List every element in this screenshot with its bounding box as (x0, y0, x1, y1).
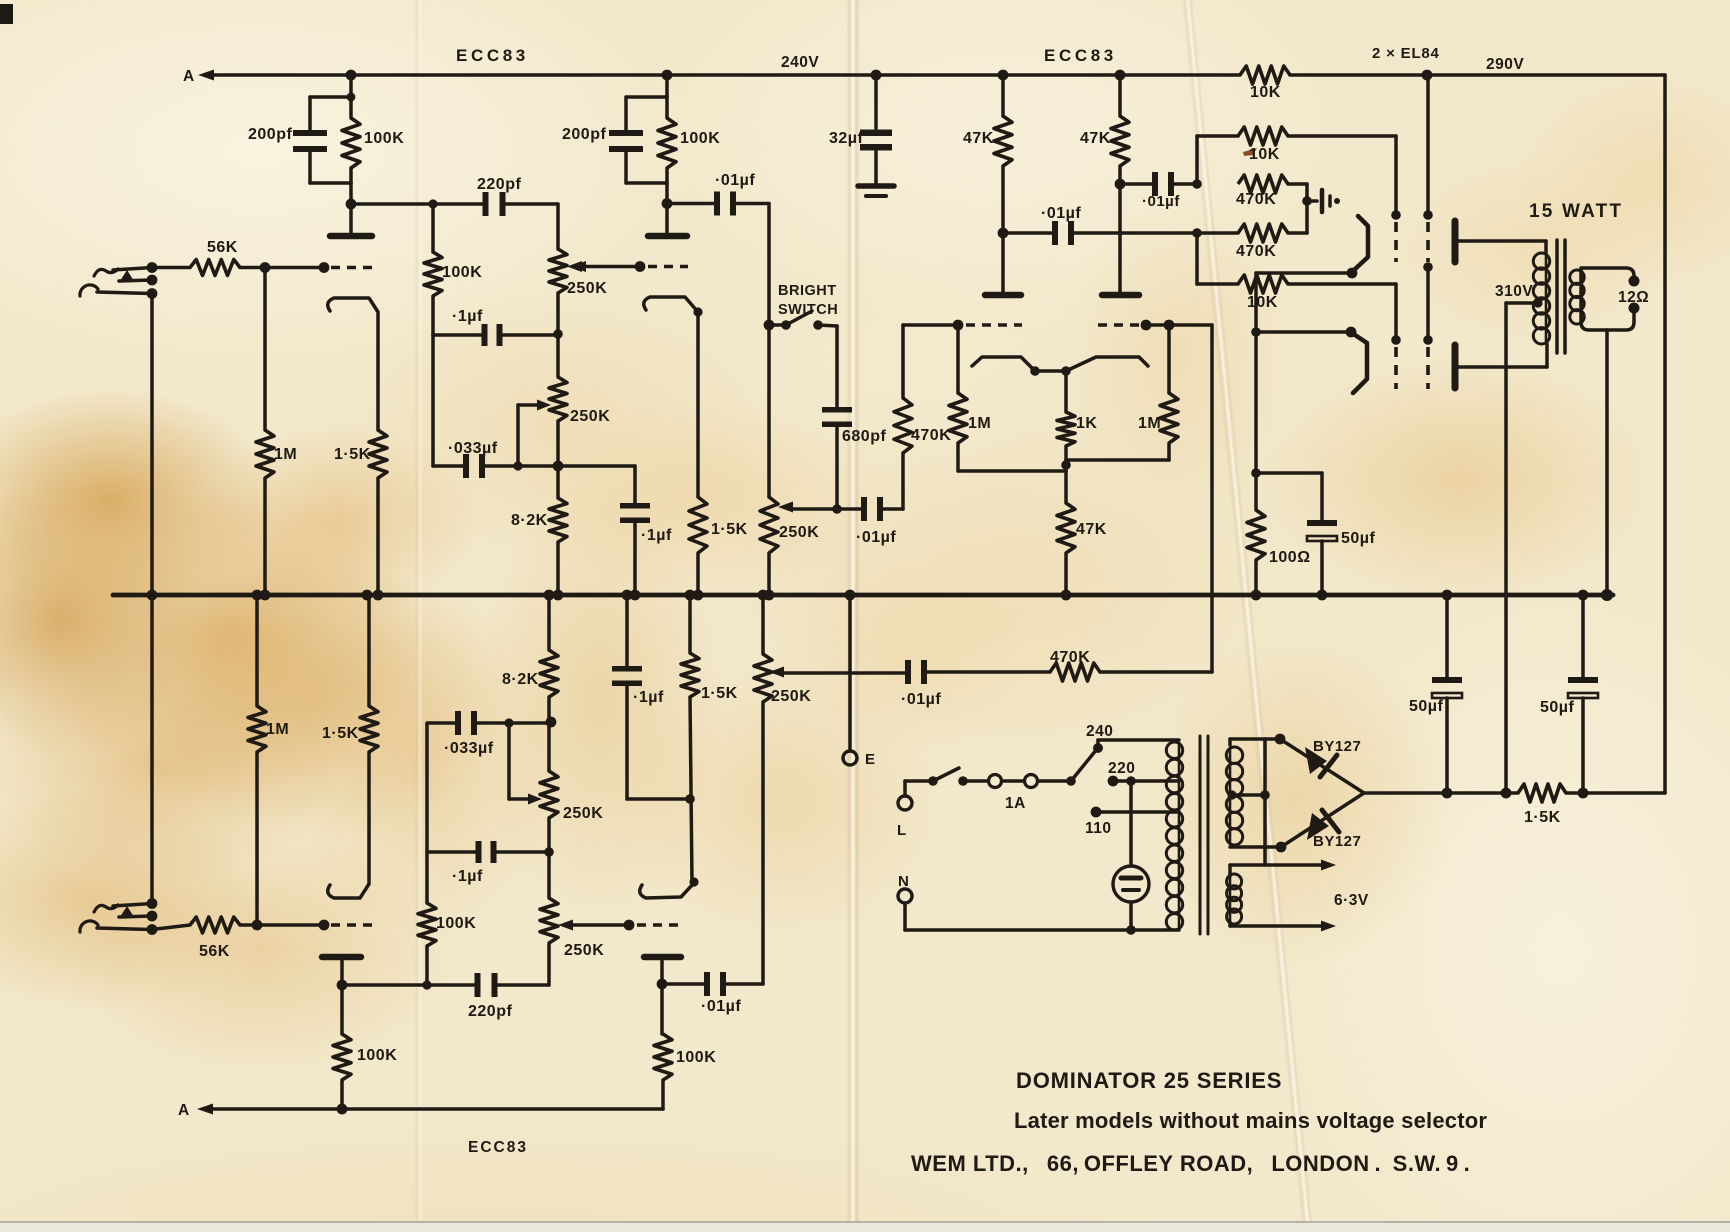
capacitor .033uf (ch2) (455, 711, 477, 735)
resistor 470K (PI grid) (894, 325, 912, 453)
svg-text:·01µf: ·01µf (701, 998, 741, 1015)
svg-text:ECC83: ECC83 (468, 1139, 528, 1156)
fuse 1A (989, 775, 1072, 788)
resistor 1.5K (V1b cathode) (689, 497, 707, 595)
transformer OT primary (1533, 253, 1549, 344)
transformer PT HT secondary (1226, 747, 1242, 845)
capacitor 220pf (ch2) (475, 973, 498, 997)
junction HT+ 50uf-3 (1578, 788, 1589, 799)
wire 100K tone ch1 down (431, 335, 435, 466)
label 200pf V1b (562, 126, 606, 143)
svg-text:10K: 10K (1250, 84, 1281, 101)
title WEM LTD address (911, 1151, 1470, 1176)
node A (top feedback rail, arrow left) (183, 68, 1240, 85)
svg-text:6·3V: 6·3V (1334, 892, 1369, 909)
tube EL84-1 cathode (1347, 216, 1368, 278)
jack input 2 sleeve hook (80, 921, 152, 932)
resistor 100K (tone ch1) (424, 204, 442, 335)
junction hum preset (1302, 196, 1312, 206)
jack input 2 tip squiggle (94, 905, 118, 912)
junction 100K tone2 bottom (422, 980, 431, 989)
potentiometer 250K bass ch2 (540, 723, 558, 852)
capacitor 32uf (860, 75, 892, 183)
label .01uf PI left out (1041, 205, 1081, 222)
tube PI cathode wings (972, 357, 1148, 371)
bus 0V horizontal (113, 593, 1613, 598)
label 220pf ch1 (477, 176, 521, 193)
junction speaker terminal top (1629, 276, 1640, 287)
transformer OT secondary (1570, 270, 1584, 324)
wire EL84 screens (1423, 75, 1433, 389)
capacitor .01uf (PI right out) (1120, 172, 1197, 196)
resistor 47K (PI bias) (1057, 471, 1075, 595)
label 1.5K V2a (322, 725, 359, 742)
svg-text:470K: 470K (1050, 649, 1090, 666)
svg-text:240: 240 (1086, 723, 1113, 740)
terminal 110 tap (1091, 807, 1179, 818)
scanner corner mark (0, 4, 13, 24)
svg-text:1M: 1M (274, 446, 297, 463)
label 56K input1 (207, 239, 238, 256)
svg-text:50µf: 50µf (1409, 698, 1444, 715)
tube EL84-2 grid (1391, 335, 1401, 389)
label 32uf (829, 130, 864, 147)
wire 220pf ch2 right (497, 983, 549, 987)
wire cathode node (1256, 471, 1322, 475)
label 1A (1005, 795, 1026, 812)
svg-text:Later models without mains vol: Later models without mains voltage selec… (1014, 1108, 1487, 1133)
svg-text:100K: 100K (676, 1049, 716, 1066)
foxing speck (1243, 148, 1257, 156)
jack input 2 tip contact (113, 904, 152, 918)
junction V1b grid (635, 261, 646, 272)
svg-text:56K: 56K (199, 943, 230, 960)
capacitor 220pf (ch1 treble) (483, 192, 506, 216)
svg-text:240V: 240V (781, 54, 819, 71)
svg-text:200pf: 200pf (562, 126, 606, 143)
triode V1b cathode (644, 297, 703, 497)
label 2 x EL84 (1372, 45, 1440, 62)
resistor 47K (PI left) (994, 75, 1012, 292)
triode V1a cathode (328, 298, 378, 430)
junction bus x1583 (1578, 590, 1589, 601)
wire jack2 to bus (150, 595, 154, 904)
diode BY127 upper (1280, 739, 1364, 793)
potentiometer 250K volume ch1 (760, 497, 778, 595)
junction 32uf rail (871, 70, 882, 81)
svg-text:·1µf: ·1µf (452, 868, 483, 885)
junction bus x367 (362, 590, 373, 601)
label 100R (1269, 549, 1311, 566)
svg-text:200pf: 200pf (248, 126, 292, 143)
junction 56K / 1M node (260, 262, 271, 273)
junction screens rail (1422, 70, 1433, 81)
svg-text:12Ω: 12Ω (1618, 289, 1649, 306)
speaker loop (1581, 268, 1634, 330)
svg-text:1M: 1M (968, 415, 991, 432)
junction bright tap (764, 320, 775, 331)
junction jack2 tip (147, 898, 158, 909)
svg-text:BY127: BY127 (1313, 738, 1361, 755)
junction PI cathode left (1030, 366, 1040, 376)
triode V2b anode bar (644, 954, 681, 961)
label BRIGHT SWITCH (778, 283, 838, 318)
wire 220pf ch2 left (342, 983, 474, 987)
capacitor .1uf (ch1 tone) (482, 324, 503, 346)
svg-text:100K: 100K (364, 130, 404, 147)
label 1.5K V2b (701, 685, 738, 702)
wire V2b grid dashes (637, 923, 684, 926)
svg-text:680pf: 680pf (842, 428, 886, 445)
resistor 8.2K (ch1) (549, 466, 567, 595)
tube EL84-1 anode bar (1452, 221, 1459, 262)
junction bus x1322 (1317, 590, 1328, 601)
svg-text:220: 220 (1108, 760, 1135, 777)
junction bus x549 (544, 590, 555, 601)
wire EL84-2 anode to OT (1456, 344, 1547, 367)
capacitor 200pf (V1b) (609, 130, 643, 152)
resistor 100K (tone ch2) (418, 724, 436, 985)
svg-text:250K: 250K (779, 524, 819, 541)
junction cathode node (1251, 468, 1261, 478)
junction bus x558 (553, 590, 564, 601)
tube PI anode bar left (985, 292, 1021, 299)
wire EL84-2 cathode (1256, 330, 1351, 334)
junction 680pf wiper (832, 504, 842, 514)
transformer OT core (1557, 240, 1565, 353)
jack input 1 tip squiggle (94, 269, 118, 276)
jack input 1 sleeve hook (80, 285, 152, 296)
junction diode2 anode (1276, 842, 1287, 853)
svg-text:E: E (865, 751, 876, 768)
label 100K V2b (676, 1049, 716, 1066)
junction bus x627 (622, 590, 633, 601)
wire L to switch (905, 781, 933, 796)
transformer PT core (1200, 736, 1208, 934)
svg-text:100K: 100K (442, 264, 482, 281)
label 220 (1108, 760, 1135, 777)
svg-text:·01µf: ·01µf (901, 691, 941, 708)
junction NFB 1M tap (1164, 320, 1175, 331)
label .01uf PI right out (1142, 193, 1180, 210)
svg-text:250K: 250K (570, 408, 610, 425)
svg-text:SWITCH: SWITCH (778, 302, 838, 318)
junction 56K2 / 1M node (252, 920, 263, 931)
junction 47K-2 rail (1115, 70, 1126, 81)
label 50uf reservoir (1409, 698, 1444, 715)
wire tone ch2 bottom (427, 721, 549, 725)
svg-text:·01µf: ·01µf (1142, 193, 1180, 210)
label .01uf PI input (856, 529, 896, 546)
junction neon top (1126, 776, 1136, 786)
label 1M input1 (274, 446, 297, 463)
capacitor 50uf (smoothing) (1568, 595, 1598, 793)
junction bus x1447 (1442, 590, 1453, 601)
resistor 56K (input 2) (152, 917, 324, 933)
wire PI left grid (903, 320, 963, 331)
wire treble2 wiper (558, 920, 573, 931)
junction bus x1066 (1061, 590, 1072, 601)
potentiometer 250K treble ch2 (540, 852, 558, 985)
label 220pf ch2 (468, 1003, 512, 1020)
svg-text:·01µf: ·01µf (715, 172, 755, 189)
transformer PT heater winding (1227, 874, 1242, 924)
svg-text:470K: 470K (911, 427, 951, 444)
resistor 10K (HT dropper, top rail) (1240, 66, 1665, 84)
capacitor .1uf (ch2 tone) (476, 841, 497, 863)
capacitor .033uf (ch1) (463, 454, 485, 478)
label ECC83 first stage (456, 46, 529, 65)
wire ladder seg A (1195, 136, 1199, 184)
wire coupling cap to volume (736, 204, 769, 498)
svg-text:1A: 1A (1005, 795, 1026, 812)
label 1.5K PSU (1524, 809, 1561, 826)
junction 47K-1 rail (998, 70, 1009, 81)
potentiometer 250K volume ch2 (754, 595, 772, 984)
paper fold crease left faint (414, 0, 423, 1232)
label 100K V2a (357, 1047, 397, 1064)
junction PI left cap node (998, 228, 1009, 239)
svg-text:1·5K: 1·5K (701, 685, 738, 702)
junction cathode join (1251, 327, 1261, 337)
capacitor .1uf (ch1 to bus) (620, 466, 650, 595)
wire HT+ line (1364, 791, 1665, 795)
resistor 47K (PI right) (1111, 75, 1129, 292)
potentiometer 250K bass ch1 (549, 333, 567, 466)
diode BY127 lower (1281, 793, 1364, 847)
svg-text:2 × EL84: 2 × EL84 (1372, 45, 1440, 62)
svg-text:110: 110 (1085, 820, 1112, 837)
svg-text:470K: 470K (1236, 191, 1276, 208)
svg-text:L: L (897, 822, 907, 839)
wire PI input (883, 453, 903, 509)
wire PI right grid to NFB (1146, 323, 1212, 327)
label 470K grid2 (1236, 243, 1276, 260)
junction V2a grid (319, 920, 330, 931)
switch BRIGHT (769, 311, 837, 407)
tube EL84-2 anode bar (1452, 345, 1459, 388)
junction bus end (1601, 589, 1613, 601)
node A bottom (arrow) (178, 1102, 663, 1119)
junction jack1 ring (147, 275, 158, 286)
wire V1a anode to 220pf (351, 202, 484, 206)
capacitor 680pf (822, 407, 852, 509)
label 680pf (842, 428, 886, 445)
capacitor 50uf (reservoir) (1432, 595, 1462, 793)
tube EL84-1 grid (1391, 210, 1401, 262)
label .1uf ch1 tone (452, 308, 483, 325)
junction PI cathode right (1061, 366, 1071, 376)
title DOMINATOR 25 SERIES (1016, 1068, 1282, 1093)
capacitor .01uf (PI left out) (1003, 221, 1238, 245)
wire volume ch1 wiper (778, 502, 861, 513)
junction bus x690 (685, 590, 696, 601)
capacitor 50uf (cathode) (1307, 473, 1337, 595)
label .1uf ch2 tone (452, 868, 483, 885)
label 240 (1086, 723, 1113, 740)
svg-text:·033µf: ·033µf (448, 440, 498, 457)
label 1.5K V1a (334, 446, 371, 463)
capacitor .01uf (NFB) (905, 660, 927, 684)
resistor 1.5K (V2a cathode) (360, 595, 378, 752)
wire OT centre tap 310V (1506, 298, 1543, 793)
label 250K volume ch2 (771, 688, 811, 705)
wire CT riser (1263, 739, 1267, 865)
svg-text:1M: 1M (1138, 415, 1161, 432)
label 50uf cathode (1341, 530, 1376, 547)
svg-text:BY127: BY127 (1313, 833, 1361, 850)
label 250K treble ch2 (564, 942, 604, 959)
bottom scanner edge (0, 1221, 1730, 1232)
junction tone ch1 node (553, 461, 564, 472)
label .01uf V2b (701, 998, 741, 1015)
junction diode1 anode (1275, 734, 1286, 745)
junction HT+ 50uf-2 (1442, 788, 1453, 799)
label 1K PI tail (1076, 415, 1097, 432)
junction bus x265 (260, 590, 271, 601)
resistor 10K (EL84 grid2 stopper) (1197, 275, 1396, 340)
label 100K V1a (364, 130, 404, 147)
svg-text:100K: 100K (680, 130, 720, 147)
label 56K input2 (199, 943, 230, 960)
svg-text:·033µf: ·033µf (444, 740, 494, 757)
label 8.2K ch2 (502, 671, 539, 688)
wire PI bias node (958, 460, 1169, 471)
junction PI right grid (1141, 320, 1152, 331)
capacitor .1uf (ch2 to bus) (612, 595, 695, 804)
svg-text:47K: 47K (1076, 521, 1107, 538)
svg-text:100K: 100K (436, 915, 476, 932)
resistor 56K (input 1) (152, 260, 324, 276)
label 100K tone ch2 (436, 915, 476, 932)
potentiometer 250K treble ch1 (549, 249, 567, 333)
capacitor .01uf (V1b coupling) (714, 192, 736, 216)
wire 240 tap (1098, 740, 1179, 748)
svg-text:15 WATT: 15 WATT (1529, 201, 1623, 222)
label 290V (1486, 56, 1524, 73)
wire right edge (290V rail down to rectifier) (1663, 75, 1667, 793)
tube EL84-2 cathode (1346, 327, 1367, 393)
label 12 ohm (1618, 289, 1649, 306)
svg-text:32µf: 32µf (829, 130, 864, 147)
paper fold crease right (diagonal) (1181, 0, 1313, 1226)
triode V1b grid wire (571, 261, 640, 272)
junction bus x850 (845, 590, 856, 601)
resistor 1.5K (PSU) (1518, 784, 1566, 802)
label 10K grid2 (1247, 294, 1278, 311)
wire V1b grid dashes (648, 265, 688, 268)
wire V1a grid dashes (331, 266, 372, 269)
label 250K treble ch1 (567, 280, 607, 297)
wire HT top to diode (1230, 739, 1280, 745)
label BY127 upper (1313, 738, 1361, 755)
label 15 WATT (1529, 201, 1623, 222)
label 10K grid1 (1249, 146, 1280, 163)
svg-text:470K: 470K (1236, 243, 1276, 260)
resistor 1M (input 2 grid) (248, 595, 266, 925)
svg-text:·01µf: ·01µf (856, 529, 896, 546)
junction bus x1256 (1251, 590, 1262, 601)
junction ladder row4 (1192, 228, 1202, 238)
terminal E (843, 595, 876, 768)
label .1uf ch2 bus (633, 689, 664, 706)
resistor 1K (PI tail) (1057, 371, 1075, 460)
lamp neon (1113, 781, 1149, 930)
junction jack2 ring (147, 911, 158, 922)
label 100K tone ch1 (442, 264, 482, 281)
label BY127 lower (1313, 833, 1361, 850)
junction bass2 wiper bottom (504, 718, 513, 727)
wire 220pf to treble pot (505, 204, 558, 249)
svg-text:·1µf: ·1µf (452, 308, 483, 325)
wire jack1 sleeve to bus (150, 294, 154, 596)
label .033uf ch1 (448, 440, 498, 457)
junction jack1 sleeve (147, 288, 158, 299)
label 470K PI grid (911, 427, 951, 444)
svg-text:47K: 47K (1080, 130, 1111, 147)
junction V1b anode node (662, 198, 673, 209)
label 470K NFB (1050, 649, 1090, 666)
svg-text:·1µf: ·1µf (641, 527, 672, 544)
resistor 1M (PI right) (1160, 325, 1178, 460)
junction V1a anode rail (346, 70, 357, 81)
wire V2b anode (657, 957, 668, 1034)
svg-text:100K: 100K (357, 1047, 397, 1064)
title later models (1014, 1108, 1487, 1133)
svg-text:56K: 56K (207, 239, 238, 256)
svg-text:BRIGHT: BRIGHT (778, 283, 837, 299)
junction tone ch2 node (546, 717, 557, 728)
svg-text:250K: 250K (564, 942, 604, 959)
switch mains (928, 768, 988, 786)
junction V1b anode rail (662, 70, 673, 81)
svg-text:8·2K: 8·2K (502, 671, 539, 688)
triode V2a cathode (328, 752, 369, 898)
triode V2b grid wire (570, 923, 629, 927)
label 250K bass ch1 (570, 408, 610, 425)
label 8.2K ch1 (511, 512, 548, 529)
svg-text:250K: 250K (567, 280, 607, 297)
junction bus x635 (630, 590, 641, 601)
svg-text:50µf: 50µf (1341, 530, 1376, 547)
junction speaker terminal bottom (1629, 303, 1640, 314)
wire tone ch1 bottom (433, 464, 635, 468)
svg-text:310V: 310V (1495, 283, 1533, 300)
resistor 470K (NFB) (927, 663, 1212, 681)
label 1M PI left (968, 415, 991, 432)
junction V1a anode RC top (347, 93, 356, 102)
junction A rail V2a (337, 1104, 348, 1115)
resistor 1M (input 1 grid) (256, 268, 274, 596)
wire speaker return (1605, 330, 1609, 595)
label 50uf smoothing (1540, 699, 1575, 716)
svg-text:10K: 10K (1247, 294, 1278, 311)
junction PI bias 47K (1061, 460, 1071, 470)
label 470K grid1 (1236, 191, 1276, 208)
label ECC83 phase inverter (1044, 46, 1117, 65)
wire .1uf ch2 links (427, 847, 554, 857)
svg-text:250K: 250K (771, 688, 811, 705)
junction bus x378 (373, 590, 384, 601)
svg-text:·01µf: ·01µf (1041, 205, 1081, 222)
label 1M input2 (266, 721, 289, 738)
resistor 1M (PI left) (949, 325, 967, 471)
svg-text:ECC83: ECC83 (456, 46, 529, 65)
wire HT bottom to diode (1230, 845, 1281, 849)
svg-text:1M: 1M (266, 721, 289, 738)
junction neon bottom (1126, 925, 1136, 935)
resistor 10K (EL84 grid1 stopper) (1197, 127, 1396, 215)
